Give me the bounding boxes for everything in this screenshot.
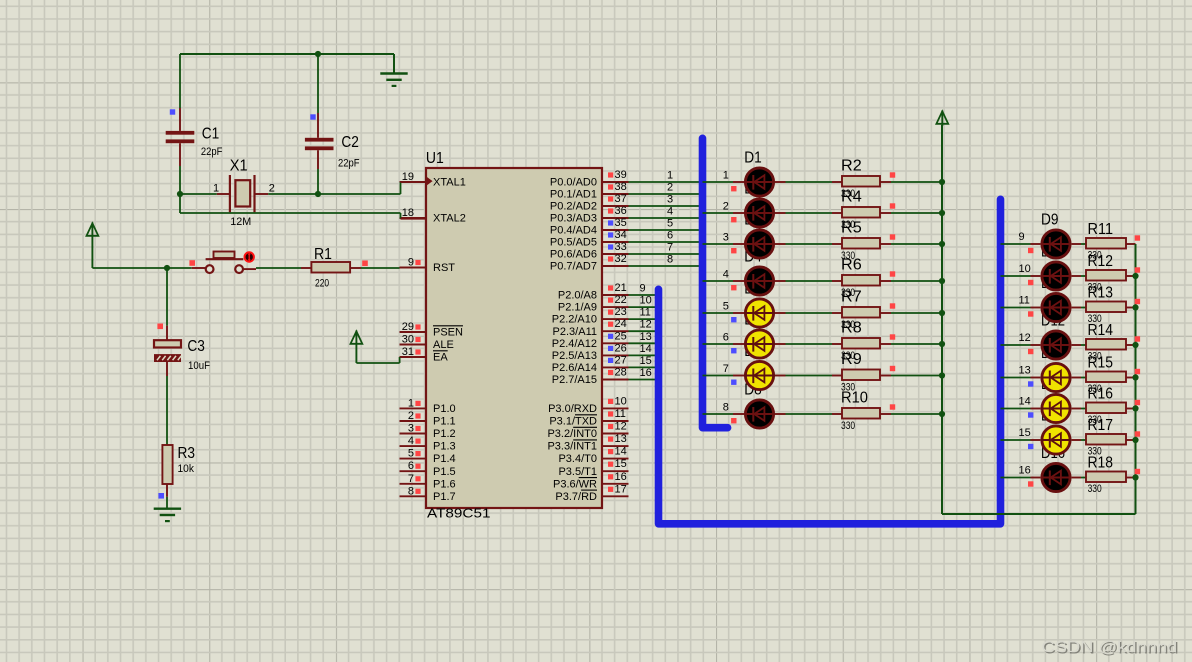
svg-text:14: 14 xyxy=(1019,396,1031,408)
svg-text:18: 18 xyxy=(402,207,414,219)
svg-text:4: 4 xyxy=(723,269,729,281)
svg-text:10uF: 10uF xyxy=(188,360,210,372)
svg-text:21: 21 xyxy=(615,282,627,294)
svg-text:7: 7 xyxy=(667,242,673,254)
svg-text:X1: X1 xyxy=(230,157,248,174)
svg-text:RST: RST xyxy=(433,262,455,274)
svg-text:P1.5: P1.5 xyxy=(433,466,456,478)
svg-text:R11: R11 xyxy=(1088,221,1114,238)
svg-text:D9: D9 xyxy=(1041,212,1059,229)
svg-text:11: 11 xyxy=(1019,295,1030,307)
svg-text:8: 8 xyxy=(667,254,673,266)
svg-text:C1: C1 xyxy=(202,126,220,143)
svg-text:38: 38 xyxy=(615,181,627,193)
svg-text:P2.5/A13: P2.5/A13 xyxy=(552,350,597,362)
svg-text:P0.7/AD7: P0.7/AD7 xyxy=(550,261,597,273)
svg-text:16: 16 xyxy=(640,367,652,379)
svg-text:P3.0/RXD: P3.0/RXD xyxy=(548,403,597,415)
svg-text:26: 26 xyxy=(615,342,627,354)
svg-text:12M: 12M xyxy=(230,216,251,228)
svg-text:330: 330 xyxy=(1088,483,1102,495)
svg-text:12: 12 xyxy=(615,421,627,433)
svg-text:14: 14 xyxy=(615,446,627,458)
svg-text:9: 9 xyxy=(1019,231,1025,243)
svg-text:11: 11 xyxy=(615,408,626,420)
svg-text:1: 1 xyxy=(723,170,729,182)
svg-text:15: 15 xyxy=(640,355,652,367)
svg-text:10: 10 xyxy=(640,295,652,307)
svg-text:14: 14 xyxy=(640,343,652,355)
svg-text:R4: R4 xyxy=(841,189,862,206)
svg-text:16: 16 xyxy=(615,471,627,483)
svg-text:31: 31 xyxy=(402,346,414,358)
svg-text:XTAL1: XTAL1 xyxy=(433,177,466,189)
svg-text:9: 9 xyxy=(640,283,646,295)
svg-text:P1.0: P1.0 xyxy=(433,403,456,415)
svg-text:37: 37 xyxy=(615,193,627,205)
svg-text:P0.5/AD5: P0.5/AD5 xyxy=(550,237,597,249)
svg-text:P1.6: P1.6 xyxy=(433,478,456,490)
svg-text:P0.6/AD6: P0.6/AD6 xyxy=(550,249,597,261)
svg-text:4: 4 xyxy=(408,435,414,447)
svg-text:P0.3/AD3: P0.3/AD3 xyxy=(550,213,597,225)
svg-text:8: 8 xyxy=(408,485,414,497)
svg-text:3: 3 xyxy=(408,423,414,435)
svg-text:P2.3/A11: P2.3/A11 xyxy=(553,326,597,338)
svg-text:R2: R2 xyxy=(841,158,862,175)
svg-text:13: 13 xyxy=(615,433,627,445)
svg-text:R18: R18 xyxy=(1088,455,1114,472)
svg-text:3: 3 xyxy=(667,194,673,206)
svg-text:CSDN @kdnnnd: CSDN @kdnnnd xyxy=(1042,639,1178,656)
svg-text:P1.1: P1.1 xyxy=(433,416,456,428)
svg-text:AT89C51: AT89C51 xyxy=(427,506,491,521)
svg-text:28: 28 xyxy=(615,367,627,379)
svg-text:5: 5 xyxy=(667,218,673,230)
svg-text:P3.4/T0: P3.4/T0 xyxy=(558,453,597,465)
svg-text:P0.0/AD0: P0.0/AD0 xyxy=(550,177,597,189)
svg-text:R13: R13 xyxy=(1088,285,1114,302)
svg-text:R17: R17 xyxy=(1088,417,1114,434)
svg-text:2: 2 xyxy=(269,182,275,194)
svg-text:P2.0/A8: P2.0/A8 xyxy=(558,290,597,302)
svg-text:EA: EA xyxy=(433,352,448,364)
svg-text:35: 35 xyxy=(615,217,627,229)
svg-text:P2.2/A10: P2.2/A10 xyxy=(552,314,597,326)
svg-text:5: 5 xyxy=(723,301,729,313)
svg-text:R6: R6 xyxy=(841,257,862,274)
svg-text:6: 6 xyxy=(667,230,673,242)
svg-text:29: 29 xyxy=(402,321,414,333)
svg-text:22pF: 22pF xyxy=(338,158,360,170)
svg-text:30: 30 xyxy=(402,334,414,346)
svg-text:P0.2/AD2: P0.2/AD2 xyxy=(550,201,597,213)
svg-text:1: 1 xyxy=(213,182,219,194)
svg-text:10: 10 xyxy=(615,395,627,407)
svg-text:2: 2 xyxy=(408,410,414,422)
svg-text:22: 22 xyxy=(615,294,627,306)
svg-text:R7: R7 xyxy=(841,289,862,306)
svg-text:P0.1/AD1: P0.1/AD1 xyxy=(550,189,597,201)
svg-text:23: 23 xyxy=(615,306,627,318)
svg-text:P2.4/A12: P2.4/A12 xyxy=(552,338,597,350)
svg-text:32: 32 xyxy=(615,253,627,265)
svg-text:6: 6 xyxy=(408,460,414,472)
svg-text:R1: R1 xyxy=(314,246,332,263)
svg-text:D1: D1 xyxy=(744,150,762,167)
svg-text:39: 39 xyxy=(615,169,627,181)
svg-text:2: 2 xyxy=(667,182,673,194)
svg-text:R10: R10 xyxy=(841,390,868,407)
svg-text:2: 2 xyxy=(723,201,729,213)
svg-text:P1.2: P1.2 xyxy=(433,428,456,440)
svg-text:P0.4/AD4: P0.4/AD4 xyxy=(550,225,597,237)
svg-text:P2.6/A14: P2.6/A14 xyxy=(552,362,597,374)
svg-text:24: 24 xyxy=(615,318,627,330)
svg-text:7: 7 xyxy=(408,473,414,485)
svg-text:R8: R8 xyxy=(841,320,862,337)
svg-text:P2.7/A15: P2.7/A15 xyxy=(552,374,597,386)
svg-text:R16: R16 xyxy=(1088,386,1114,403)
svg-text:P3.3/INT1: P3.3/INT1 xyxy=(547,441,597,453)
svg-text:1: 1 xyxy=(408,397,414,409)
svg-text:P3.6/WR: P3.6/WR xyxy=(553,478,597,490)
svg-text:220: 220 xyxy=(315,278,329,290)
svg-text:13: 13 xyxy=(1019,365,1031,377)
svg-text:13: 13 xyxy=(640,331,652,343)
svg-text:P2.1/A9: P2.1/A9 xyxy=(558,302,597,314)
svg-text:P3.2/INT0: P3.2/INT0 xyxy=(547,428,597,440)
svg-text:10: 10 xyxy=(1019,263,1031,275)
svg-text:P1.7: P1.7 xyxy=(433,491,456,503)
svg-text:25: 25 xyxy=(615,330,627,342)
svg-text:17: 17 xyxy=(615,483,627,495)
svg-text:8: 8 xyxy=(723,402,729,414)
svg-text:R15: R15 xyxy=(1088,355,1114,372)
svg-text:15: 15 xyxy=(1019,427,1031,439)
svg-text:U1: U1 xyxy=(426,150,444,167)
svg-text:PSEN: PSEN xyxy=(433,327,463,339)
svg-text:P3.7/RD: P3.7/RD xyxy=(555,491,597,503)
svg-text:ALE: ALE xyxy=(433,339,454,351)
svg-text:C2: C2 xyxy=(341,134,359,151)
svg-text:R9: R9 xyxy=(841,351,862,368)
svg-text:12: 12 xyxy=(640,319,652,331)
svg-text:R5: R5 xyxy=(841,220,862,237)
svg-text:1: 1 xyxy=(667,170,673,182)
svg-text:4: 4 xyxy=(667,206,673,218)
svg-text:11: 11 xyxy=(640,307,651,319)
svg-text:P1.4: P1.4 xyxy=(433,453,456,465)
svg-text:R3: R3 xyxy=(178,445,196,462)
svg-text:XTAL2: XTAL2 xyxy=(433,213,466,225)
svg-text:3: 3 xyxy=(723,232,729,244)
svg-text:12: 12 xyxy=(1019,332,1031,344)
svg-text:P3.1/TXD: P3.1/TXD xyxy=(549,416,597,428)
svg-text:5: 5 xyxy=(408,448,414,460)
svg-text:36: 36 xyxy=(615,205,627,217)
svg-text:16: 16 xyxy=(1019,465,1031,477)
svg-text:P1.3: P1.3 xyxy=(433,441,456,453)
svg-text:27: 27 xyxy=(615,354,627,366)
svg-text:P3.5/T1: P3.5/T1 xyxy=(558,466,597,478)
svg-text:C3: C3 xyxy=(187,338,205,355)
svg-text:7: 7 xyxy=(723,363,729,375)
svg-text:330: 330 xyxy=(841,420,855,432)
svg-text:33: 33 xyxy=(615,241,627,253)
svg-text:22pF: 22pF xyxy=(201,146,223,158)
svg-text:R12: R12 xyxy=(1088,253,1114,270)
svg-text:6: 6 xyxy=(723,332,729,344)
svg-text:R14: R14 xyxy=(1088,322,1114,339)
svg-text:10k: 10k xyxy=(178,463,195,475)
svg-text:34: 34 xyxy=(615,229,627,241)
svg-text:15: 15 xyxy=(615,458,627,470)
